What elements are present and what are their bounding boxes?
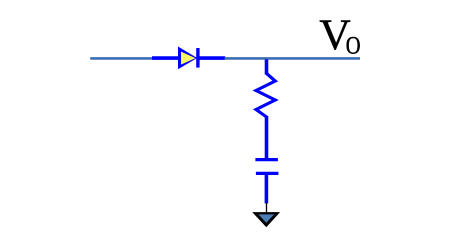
wire: left thin input wire — [90, 57, 153, 60]
ground lead (thin black) — [266, 203, 268, 213]
diode D1: cathode bar — [196, 48, 199, 68]
wire: cathode lead (thick blue stub) — [200, 56, 226, 60]
capacitor C1: bottom plate — [256, 172, 279, 175]
capacitor C1: top plate — [255, 158, 278, 161]
wire: vertical from junction to resistor — [265, 59, 269, 74]
resistor R1: zigzag — [256, 74, 275, 118]
diode D1: triangle outline — [178, 47, 197, 70]
ground symbol: steel blue fill — [258, 214, 274, 222]
wire: capacitor to ground — [265, 175, 269, 203]
ground symbol: black triangle — [252, 212, 280, 227]
diode D1: yellow fill — [181, 52, 195, 65]
wire: resistor to capacitor — [265, 116, 269, 158]
wire: right thin wire to output Vo — [225, 57, 361, 60]
svg-text:O: O — [346, 32, 361, 61]
wire: anode lead (thick blue stub) — [152, 56, 179, 60]
